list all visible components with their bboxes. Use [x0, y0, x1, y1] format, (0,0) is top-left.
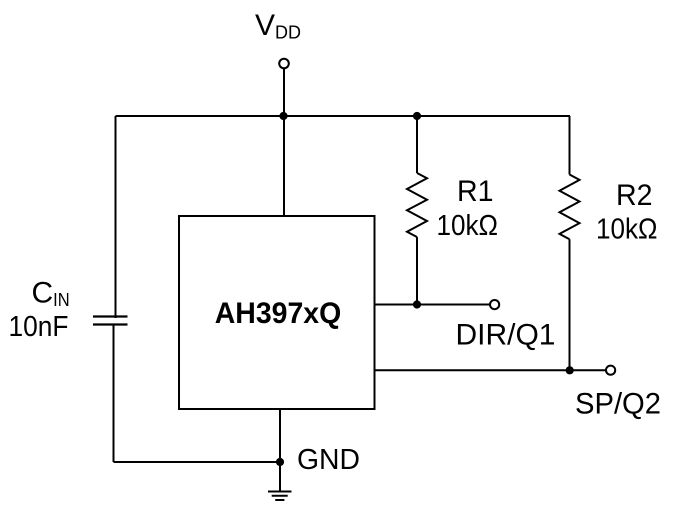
svg-text:R1: R1 [457, 175, 494, 208]
svg-text:GND: GND [297, 444, 360, 476]
capacitor C1 CIN [93, 317, 128, 325]
wire bottom to GND node [114, 461, 281, 463]
svg-text:10kΩ: 10kΩ [437, 210, 499, 242]
node junction GND [276, 458, 284, 466]
resistor R2 [560, 116, 580, 370]
IC U1 AH397xQ [179, 216, 375, 409]
resistor R1 [407, 116, 427, 305]
svg-text:DIR/Q1: DIR/Q1 [456, 318, 556, 351]
wire top rail [116, 115, 571, 117]
wire DIR/Q1 [375, 304, 493, 306]
wire left rail lower [113, 325, 115, 463]
wire VDD to IC [283, 116, 285, 216]
wire IC GND pin down [279, 409, 281, 491]
node junction R2 / SP [566, 366, 574, 374]
svg-text:10kΩ: 10kΩ [596, 213, 658, 245]
terminal DIR/Q1 [490, 300, 499, 309]
ground symbol [268, 492, 292, 501]
terminal VDD [279, 59, 289, 69]
wire VDD stub [283, 69, 285, 117]
node junction VDD / top rail [279, 112, 287, 120]
wire SP/Q2 [375, 369, 608, 371]
svg-text:SP/Q2: SP/Q2 [575, 388, 661, 421]
node junction R1 / top rail [413, 112, 421, 120]
svg-text:R2: R2 [616, 179, 653, 212]
node junction R1 / DIR [413, 300, 421, 308]
wire left rail upper [115, 116, 117, 318]
terminal SP/Q2 [606, 366, 615, 375]
svg-text:AH397xQ: AH397xQ [215, 297, 342, 330]
svg-text:10nF: 10nF [9, 311, 69, 343]
